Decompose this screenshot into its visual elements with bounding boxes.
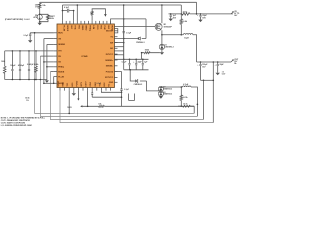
resistor R9 row — [99, 105, 105, 107]
ground below D1a — [160, 52, 164, 55]
current source I1 circle — [37, 14, 42, 19]
node sense pin row 1 — [123, 42, 125, 44]
diode D3 charge pump — [159, 91, 162, 93]
capacitor C2 boost gap — [123, 19, 125, 59]
svg-text:PGOOD: PGOOD — [106, 71, 114, 73]
node cap module right — [73, 10, 75, 12]
wire pin2 drop — [43, 39, 45, 84]
resistor R10 cluster — [3, 66, 6, 73]
node pin10 b — [43, 83, 45, 85]
node D1a top — [161, 34, 163, 36]
wire boost loop — [114, 29, 117, 33]
resistor R6 sense — [144, 52, 150, 54]
node cluster bottom e — [35, 79, 37, 81]
node caps bottom rail3 — [203, 80, 205, 82]
node long rail join — [123, 59, 125, 61]
svg-text:LT3845: LT3845 — [81, 55, 87, 58]
node cluster c2 top — [135, 59, 137, 61]
svg-text:MODE: MODE — [58, 71, 65, 73]
node bottom caps link — [121, 96, 123, 98]
resistor R3 PLLIN vertical — [91, 15, 93, 21]
svg-text:PLLIN: PLLIN — [63, 25, 65, 31]
svg-text:3.01k: 3.01k — [183, 97, 188, 99]
wire Q1 source to SW node — [161, 30, 163, 34]
wire FB row — [178, 105, 194, 107]
node cluster c3 top — [142, 59, 144, 61]
wire pin3 row — [47, 43, 54, 45]
node SW inductor junction — [181, 34, 183, 36]
wire rail3 right up — [203, 80, 205, 119]
node pin6 tee — [43, 61, 45, 63]
svg-text:GND: GND — [109, 82, 114, 84]
arrow bottom pin symbol — [77, 91, 79, 99]
svg-text:PLLIN: PLLIN — [58, 76, 64, 78]
node VIN line right — [196, 13, 198, 15]
node cluster bottom f — [40, 79, 42, 81]
svg-text:CMDSH2-3: CMDSH2-3 — [165, 47, 174, 49]
node RSET bottom — [39, 21, 41, 23]
wire pin8 drop — [50, 72, 203, 120]
svg-text:VIN: VIN — [58, 38, 61, 40]
svg-text:SENSE: SENSE — [58, 44, 65, 46]
node PGOOD pin drop — [87, 106, 89, 108]
terminal VIN arrow — [231, 12, 233, 14]
wire cluster bottom rail — [5, 79, 47, 81]
node pin7 tee — [46, 66, 48, 68]
wire pin7 row — [47, 66, 54, 68]
svg-text:SNS1: SNS1 — [81, 25, 83, 31]
capacitor C3 VIN filter — [170, 14, 172, 15]
node cluster bottom c — [28, 79, 30, 81]
wire PLLIN loop — [92, 9, 105, 14]
svg-text:BG: BG — [110, 48, 113, 50]
wire bottom rail 1 — [35, 33, 195, 114]
svg-text:INTV: INTV — [81, 81, 83, 86]
svg-text:0.1µF: 0.1µF — [97, 83, 102, 85]
wire FB2 divider top — [180, 87, 182, 95]
svg-text:10k: 10k — [98, 104, 101, 106]
svg-text:CMDSH-3: CMDSH-3 — [134, 84, 143, 86]
wire cap module drops to pins — [63, 11, 74, 21]
svg-text:FREQ: FREQ — [58, 67, 64, 69]
node pin drop rail1 — [68, 113, 70, 115]
wire corner vertical — [121, 92, 123, 106]
wire output caps bottom — [201, 79, 214, 81]
wire pin5 row — [40, 55, 54, 57]
capacitor C11 run — [29, 33, 31, 34]
wire pin10 row — [44, 82, 54, 84]
svg-text:CMDSH2-3: CMDSH2-3 — [163, 89, 172, 91]
svg-text:100k: 100k — [1, 61, 5, 63]
wire corner pin link — [101, 91, 121, 93]
ground below D3 — [159, 96, 163, 99]
svg-text:EXTVCC: EXTVCC — [105, 77, 114, 79]
svg-text:PGND: PGND — [76, 80, 78, 86]
capacitor C13 cluster — [19, 51, 21, 69]
capacitor C12 cluster — [11, 51, 13, 69]
wire pin9 row — [53, 76, 55, 78]
node VOUT mid — [213, 61, 215, 63]
capacitor C5 — [129, 59, 131, 63]
svg-text:100pF: 100pF — [10, 65, 16, 67]
diode D2 charge pump — [160, 86, 162, 89]
resistor R7 FB2 upper — [180, 95, 183, 101]
wire bottom rail 4 — [60, 91, 213, 123]
diode D1 catch — [138, 37, 140, 40]
ground below current source — [38, 23, 42, 26]
ground bottom pin — [72, 93, 76, 96]
wire pin drop to rail1 — [68, 91, 70, 114]
node D1 row cross — [123, 38, 125, 40]
diode D4 — [136, 80, 138, 83]
arrow PLLIN pointer — [104, 14, 107, 17]
node VIN line left — [170, 13, 172, 15]
ground cluster bottom — [46, 79, 48, 82]
wire pin3 drop — [46, 44, 48, 79]
svg-text:0.1µF: 0.1µF — [64, 7, 70, 9]
svg-text:COUT1: PANASONIC 25SVPD47M: COUT1: PANASONIC 25SVPD47M — [1, 119, 30, 122]
wire D2 D3 link — [160, 90, 162, 92]
wire RUN pin row — [30, 32, 54, 34]
node VOUT c2 — [217, 61, 219, 63]
capacitor C1 top-middle — [67, 9, 69, 13]
svg-text:MODE: MODE — [66, 25, 68, 32]
svg-text:BOOST: BOOST — [106, 31, 114, 33]
svg-text:FREQ: FREQ — [88, 25, 90, 31]
node sense row left — [141, 52, 143, 54]
wire rail left drop — [4, 51, 6, 66]
wire main left rail — [5, 50, 54, 52]
wire diode drop right — [145, 19, 147, 39]
wire sense pin row 1 — [114, 42, 123, 44]
wire caps cluster top rail — [114, 58, 148, 60]
svg-text:+: + — [215, 64, 216, 66]
capacitor C8 intvcc — [120, 89, 122, 90]
wire sense row left drop — [141, 53, 143, 60]
IC bottom pin stubs and labels — [59, 88, 61, 91]
wire sense pin row 3 — [114, 50, 123, 52]
node cluster d4 — [129, 69, 131, 71]
svg-text:1%: 1% — [26, 100, 29, 102]
capacitor C14 cluster — [28, 51, 30, 69]
wire long vertical from rail B — [123, 5, 125, 70]
resistor R4 vertical mid-right — [180, 19, 183, 25]
node D2 D3 link — [160, 90, 162, 92]
wire TG upper horizontal — [111, 19, 146, 24]
wire top rail B — [63, 4, 182, 6]
svg-text:PGD: PGD — [96, 25, 98, 30]
svg-text:SW: SW — [110, 42, 113, 44]
node cluster bottom b — [19, 79, 21, 81]
svg-text:NOTE: 1. IF GROUND THE POWERED: NOTE: 1. IF GROUND THE POWERED BY A PULL — [1, 116, 46, 119]
wire SW2 horizontal — [161, 86, 183, 88]
svg-text:(PLANT NETWORK) 1 & 4J: (PLANT NETWORK) 1 & 4J — [5, 18, 30, 21]
svg-text:ILIM: ILIM — [92, 25, 94, 29]
capacitor C4 input bulk — [200, 14, 202, 16]
diode D1a SW schottky — [161, 35, 163, 45]
resistor box staple — [129, 94, 135, 101]
svg-text:10.1k: 10.1k — [183, 104, 188, 106]
node cluster c1 top — [129, 59, 131, 61]
node cap module left — [62, 10, 64, 12]
wire bottom pin ground — [73, 91, 75, 94]
node VIN top pin rail B — [77, 4, 79, 6]
svg-text:+: + — [133, 62, 134, 64]
transistor Q1 main switch — [155, 23, 162, 30]
svg-text:Si7850DP: Si7850DP — [164, 26, 173, 28]
svg-text:0.1µF: 0.1µF — [124, 89, 129, 91]
svg-text:+: + — [197, 15, 198, 17]
svg-text:ITH: ITH — [58, 51, 62, 53]
node TG tee — [123, 18, 125, 20]
wire pin8 row — [50, 71, 54, 73]
wire diode D1 row — [114, 38, 146, 40]
wire top rail A — [40, 1, 197, 3]
resistor R8 FB2 lower — [183, 105, 191, 107]
ground below C3 — [169, 19, 173, 22]
node corner pin link — [121, 92, 123, 94]
IC left pin stubs and labels — [54, 32, 57, 34]
svg-text:100Ω: 100Ω — [67, 107, 72, 109]
capacitor C15 bottom pin — [91, 91, 93, 93]
wire rail A right drop — [196, 2, 198, 14]
node input cap — [200, 13, 202, 15]
node VOUT c1 — [200, 61, 202, 63]
wire D1a to ground — [161, 49, 163, 53]
arrow wire start symbol — [80, 105, 82, 107]
svg-text:0.1µF: 0.1µF — [126, 33, 132, 35]
wire RSET loop bottom — [40, 20, 48, 22]
svg-text:10µH: 10µH — [184, 38, 189, 40]
node cluster bottom a — [12, 79, 14, 81]
svg-text:EXTV: EXTV — [86, 81, 88, 87]
capacitor C7 — [142, 59, 144, 63]
wire SW node horizontal — [162, 34, 183, 36]
IC right pin stubs and labels — [114, 30, 117, 32]
wire VOUT rail — [197, 61, 231, 63]
node RUN junction — [34, 32, 36, 34]
wire current source to ground — [39, 20, 41, 23]
IC U1 LT3845 switching regulator controller body — [57, 24, 114, 88]
wire sense pin row 2 — [114, 46, 123, 48]
wire pin6 row — [44, 61, 54, 63]
svg-text:4700pF: 4700pF — [18, 64, 25, 67]
wire D3 to ground — [160, 95, 162, 96]
svg-text:CMDSH-3: CMDSH-3 — [136, 42, 145, 44]
svg-text:CMDSH2-3: CMDSH2-3 — [163, 94, 172, 96]
wire gate drive horizontal — [114, 26, 155, 28]
wire FB row right drop — [193, 106, 195, 113]
node rail c — [28, 50, 30, 52]
svg-text:INTVCC: INTVCC — [106, 54, 114, 56]
wire PGOOD row — [82, 105, 194, 107]
svg-text:L1,2: SUMIDA CDRH105R-NP-100M: L1,2: SUMIDA CDRH105R-NP-100M — [1, 124, 32, 127]
wire cap module left vert — [62, 5, 64, 11]
svg-text:1%: 1% — [35, 6, 38, 8]
wire bottom rail 2 — [40, 56, 197, 116]
node rail4 caps bottom — [213, 80, 215, 82]
wire RSET loop top — [40, 13, 48, 16]
svg-text:SNS2: SNS2 — [85, 25, 87, 31]
wire L2 to right drop — [191, 87, 197, 116]
node RSET top — [39, 14, 41, 16]
IC top pin stubs and labels — [62, 21, 64, 24]
svg-text:SENSE+: SENSE+ — [105, 60, 114, 62]
wire pin2 row — [44, 38, 54, 40]
resistor RSET vertical — [47, 15, 50, 20]
node cluster bottom d — [34, 79, 36, 81]
wire rail4 right up — [212, 62, 214, 123]
wire PGOOD pin drop — [87, 91, 89, 107]
wire VIN top pin to rail B — [76, 5, 78, 21]
resistor R12 cluster — [35, 51, 37, 66]
wire L1 to output drop — [193, 35, 197, 62]
wire R7 to row — [180, 100, 182, 106]
capacitor C10 output — [217, 62, 219, 64]
wire pin9 drop — [53, 77, 55, 84]
capacitor C2 boost — [123, 31, 125, 33]
wire cap module bottom — [63, 10, 74, 12]
node FB2 mid — [181, 105, 183, 107]
capacitor C6 — [135, 59, 137, 63]
svg-text:8.66k: 8.66k — [34, 64, 39, 66]
svg-text:RUN: RUN — [58, 33, 63, 35]
ground below C4 — [198, 20, 202, 23]
wire sense pin row 4 — [114, 54, 123, 56]
terminal VOUT arrow — [231, 60, 233, 62]
capacitor C9 output — [200, 62, 202, 64]
resistor R5 VIN filter — [182, 13, 190, 16]
svg-text:100Ω: 100Ω — [145, 50, 150, 52]
svg-text:4.7µH: 4.7µH — [183, 83, 189, 86]
inductor L2 — [183, 86, 192, 87]
svg-text:TG: TG — [110, 37, 113, 39]
wire R4 down to SW — [180, 24, 182, 34]
wire caps cluster bottom rail — [124, 69, 149, 71]
ground below C10 — [216, 73, 220, 76]
node FB2 top — [181, 86, 183, 88]
resistor R1 top-left vertical — [39, 2, 41, 3]
node rail d — [35, 50, 37, 52]
svg-text:+: + — [197, 64, 198, 66]
inductor L1 — [183, 34, 193, 35]
node rail b — [19, 50, 21, 52]
wire INTVCC down — [114, 72, 121, 89]
wire bottom caps link — [92, 96, 121, 98]
wire Q1 drain to rail B — [161, 5, 163, 23]
svg-text:SGND: SGND — [58, 83, 64, 85]
ground below C11 — [28, 40, 32, 43]
node R4 rail — [181, 13, 183, 15]
wire VIN feed line — [169, 13, 234, 15]
wire cluster to diode D4 — [130, 70, 146, 81]
node rail a — [12, 50, 14, 52]
node Q1 drain rail B — [161, 4, 163, 6]
node pin10 — [53, 83, 55, 85]
svg-text:SENSE-: SENSE- — [106, 66, 114, 68]
node L2 drop mid — [197, 104, 199, 106]
node long vertical top — [123, 4, 125, 6]
wire rail B right drop — [180, 5, 182, 19]
wire D4 to module — [147, 81, 161, 91]
wire sense row — [142, 52, 160, 54]
